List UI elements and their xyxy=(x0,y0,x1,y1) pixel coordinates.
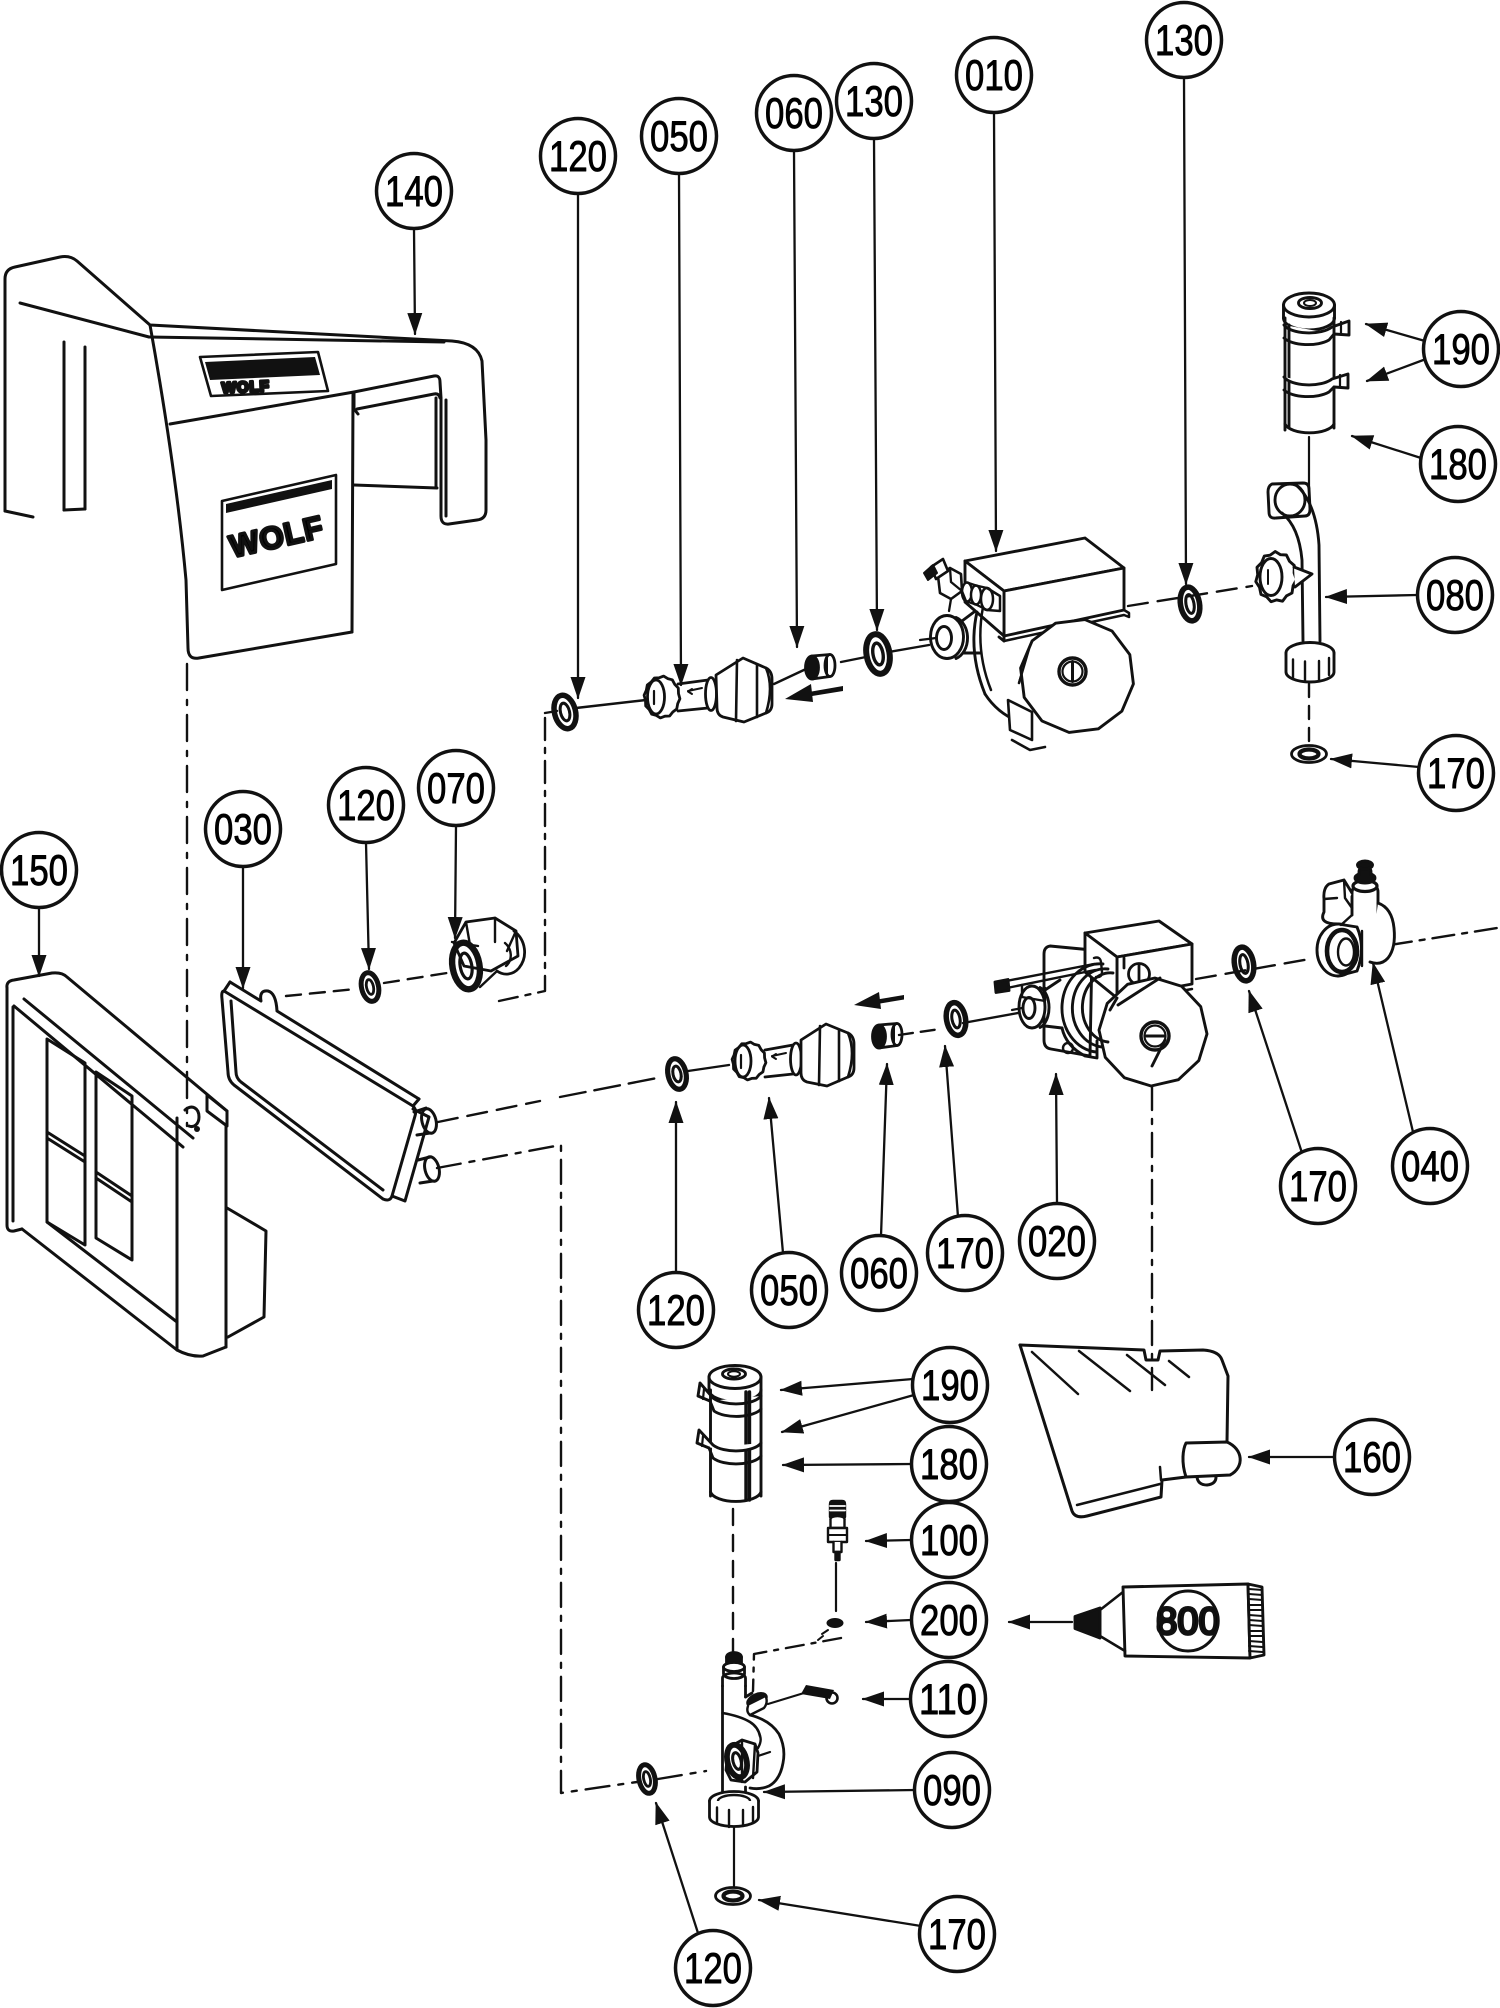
callout 180 xyxy=(912,1427,987,1502)
svg-text:WOLF: WOLF xyxy=(221,378,270,397)
elbow pipe 080 (return pipe with nuts) xyxy=(1256,483,1334,682)
svg-text:010: 010 xyxy=(965,52,1023,100)
svg-text:120: 120 xyxy=(337,782,395,830)
bushing 060 (top row) xyxy=(806,655,836,680)
leader 040 xyxy=(1373,963,1413,1132)
leader 130 top xyxy=(874,139,877,630)
callout 130 xyxy=(837,64,912,139)
elbow valve 040 (with air vent cap) xyxy=(1317,861,1394,976)
wire valve 090 bottom centerline xyxy=(733,1824,735,1886)
leader 020 xyxy=(1056,1074,1057,1203)
o-ring 130 (right of pump 010) xyxy=(1178,586,1203,623)
heat exchanger 030 (plate heat exchanger block) xyxy=(222,982,442,1201)
leader 170 bottom xyxy=(759,1900,921,1926)
leader 010 xyxy=(994,113,996,551)
callout 170 xyxy=(1419,736,1494,811)
callout 100 xyxy=(912,1503,987,1578)
flow direction arrow middle row xyxy=(854,992,904,1009)
callout 170 xyxy=(920,1897,995,1972)
svg-text:200: 200 xyxy=(920,1597,978,1645)
leader 030 xyxy=(242,867,244,988)
svg-text:160: 160 xyxy=(1343,1434,1401,1482)
o-ring 130 (top row) xyxy=(863,632,893,675)
callout 090 xyxy=(915,1753,990,1828)
svg-text:120: 120 xyxy=(549,133,607,181)
union valve 050 (top row) xyxy=(644,658,772,722)
leader 170 mid-right xyxy=(1249,991,1305,1162)
wire air vent 180 bottom axis (dashed) xyxy=(732,1509,734,1652)
wire sensor 100 axis xyxy=(835,1563,837,1611)
o-ring 120 (top row) xyxy=(551,693,580,731)
leader 110 xyxy=(863,1698,910,1700)
leader 100 xyxy=(866,1540,911,1541)
leader 800 to 200 xyxy=(1009,1621,1072,1623)
svg-text:050: 050 xyxy=(650,113,708,161)
air vent cylinder 180 with clips 190 (top right) xyxy=(1284,293,1350,433)
wire elbow 080 top centerline xyxy=(1308,437,1310,497)
callout 170 xyxy=(928,1216,1003,1291)
leader 190 upper a xyxy=(1366,324,1425,341)
leader 150 xyxy=(38,908,40,976)
leader 160 xyxy=(1249,1456,1336,1458)
leader 200 xyxy=(866,1620,911,1622)
callout 030 xyxy=(206,792,281,867)
callout 130 xyxy=(1147,3,1222,78)
svg-text:180: 180 xyxy=(920,1441,978,1489)
wire 070 row axis (dashed) xyxy=(286,973,447,996)
svg-text:120: 120 xyxy=(684,1945,742,1993)
callout 080 xyxy=(1418,558,1493,633)
svg-text:170: 170 xyxy=(1289,1163,1347,1211)
callout 110 xyxy=(911,1662,986,1737)
svg-text:060: 060 xyxy=(850,1250,908,1298)
svg-text:090: 090 xyxy=(923,1767,981,1815)
air vent cylinder 180 with clips 190 (bottom centre) xyxy=(697,1366,761,1502)
drain valve 090 (S-bend valve) xyxy=(710,1653,784,1828)
callout 150 xyxy=(2,833,77,908)
svg-text:110: 110 xyxy=(919,1676,977,1724)
axis centerline middle row xyxy=(438,928,1497,1122)
svg-text:050: 050 xyxy=(760,1267,818,1315)
callout 160 xyxy=(1335,1420,1410,1495)
leader 180 upper xyxy=(1352,436,1421,458)
callout 070 xyxy=(419,751,494,826)
callout 200 xyxy=(912,1583,987,1658)
leader 190 upper b xyxy=(1367,359,1426,381)
leader 060 top xyxy=(794,151,797,647)
callout 050 xyxy=(752,1253,827,1328)
leader 050 top xyxy=(679,174,681,685)
callout 040 xyxy=(1393,1129,1468,1204)
leader 170 upper xyxy=(1331,759,1419,767)
o-ring 170 (below valve 090) xyxy=(716,1888,751,1905)
callout 180 xyxy=(1421,427,1496,502)
svg-text:070: 070 xyxy=(427,765,485,813)
leader 080 xyxy=(1326,595,1417,597)
label WOLF (top face of cover 140) xyxy=(200,352,328,397)
leader 120 mid xyxy=(675,1102,677,1272)
leader 130 right xyxy=(1184,78,1186,584)
callout 170 xyxy=(1281,1149,1356,1224)
wire lower HX port axis with corner, down to bottom valve xyxy=(437,1145,706,1793)
o-ring 170 (below elbow 080) xyxy=(1292,746,1327,763)
svg-text:060: 060 xyxy=(765,90,823,138)
elbow fitting 070 xyxy=(449,918,525,991)
svg-text:180: 180 xyxy=(1429,441,1487,489)
svg-text:800: 800 xyxy=(1156,1601,1219,1643)
callout 120 xyxy=(639,1273,714,1348)
svg-text:130: 130 xyxy=(1155,17,1213,65)
svg-text:190: 190 xyxy=(921,1362,979,1410)
leader 190 lower a xyxy=(781,1379,913,1390)
svg-text:170: 170 xyxy=(1427,750,1485,798)
union valve 050 (middle row) xyxy=(732,1024,854,1086)
flow direction arrow top row xyxy=(785,684,843,702)
callout 050 xyxy=(642,99,717,174)
callout 140 xyxy=(377,154,452,229)
svg-text:040: 040 xyxy=(1401,1143,1459,1191)
o-ring 120 (070 row, on heat exchanger top port) xyxy=(359,971,382,1003)
leader 090 xyxy=(764,1790,915,1792)
retaining clip 110 xyxy=(768,1685,838,1704)
svg-text:170: 170 xyxy=(928,1911,986,1959)
callout 120 xyxy=(329,768,404,843)
leader 120 bottom xyxy=(656,1803,698,1933)
cover 140 (insulation top cover with WOLF labels) xyxy=(5,257,486,659)
bushing 060 (middle row) xyxy=(873,1024,903,1049)
insulation shell 150 (rear insulation with cut-outs) xyxy=(7,973,266,1356)
svg-text:080: 080 xyxy=(1426,572,1484,620)
svg-text:100: 100 xyxy=(920,1517,978,1565)
svg-text:020: 020 xyxy=(1028,1218,1086,1266)
callout 120 xyxy=(676,1931,751,2006)
axis centerline top row (dash-dot) xyxy=(545,586,1252,713)
leader 070 xyxy=(455,826,456,938)
leader 120 top xyxy=(577,194,579,698)
wire hidden centerline across pump 020 xyxy=(1060,1005,1073,1040)
o-ring 170 (right of pump 020) xyxy=(1232,946,1257,983)
wire sensor/o-ring 200 axis into valve port xyxy=(753,1638,841,1691)
pump 010 (circulation pump) xyxy=(920,538,1133,750)
o-ring 200 (sensor sealing ring) xyxy=(818,1618,844,1640)
wire hidden centerline across pump 010 xyxy=(1019,649,1029,683)
wire cover 140 axis down to heat exchanger xyxy=(186,664,188,1126)
callout 120 xyxy=(541,119,616,194)
pump 020 (circulation pump) xyxy=(995,921,1207,1086)
svg-text:150: 150 xyxy=(10,847,68,895)
wire pump 020 axis down to shell 160 xyxy=(1151,1086,1153,1390)
leader 050 mid xyxy=(769,1098,783,1253)
leader 060 mid xyxy=(881,1064,887,1236)
leader 180 lower xyxy=(783,1464,912,1465)
wire elbow 080 bottom centerline (dashed) xyxy=(1308,684,1310,744)
svg-text:030: 030 xyxy=(214,806,272,854)
svg-text:130: 130 xyxy=(845,78,903,126)
callout 010 xyxy=(957,38,1032,113)
svg-text:190: 190 xyxy=(1432,326,1490,374)
callout 190 xyxy=(913,1348,988,1423)
callout 060 xyxy=(757,76,832,151)
svg-text:170: 170 xyxy=(936,1230,994,1278)
o-ring 170 (middle row, left of pump 020) xyxy=(944,1001,968,1037)
callout 020 xyxy=(1020,1204,1095,1279)
callout 060 xyxy=(842,1236,917,1311)
tube of heat-conducting paste 800 xyxy=(1075,1584,1264,1658)
wire vertical dash-dot from top axis down to HX level xyxy=(499,718,545,1001)
o-ring 120 (middle row) xyxy=(665,1057,689,1091)
svg-text:140: 140 xyxy=(385,168,443,216)
svg-text:120: 120 xyxy=(647,1287,705,1335)
insulation shell 160 (pump insulation) xyxy=(1020,1345,1240,1517)
callout 190 xyxy=(1424,312,1499,387)
o-ring 120 (bottom, left of valve 090) xyxy=(636,1763,658,1795)
leader 120 mid-left xyxy=(366,843,369,969)
leader 190 lower b xyxy=(782,1395,914,1432)
label WOLF (front face of cover 140) xyxy=(222,475,336,590)
leader 140 xyxy=(414,229,415,334)
temperature sensor 100 xyxy=(828,1501,847,1560)
leader 170 mid xyxy=(945,1046,958,1217)
